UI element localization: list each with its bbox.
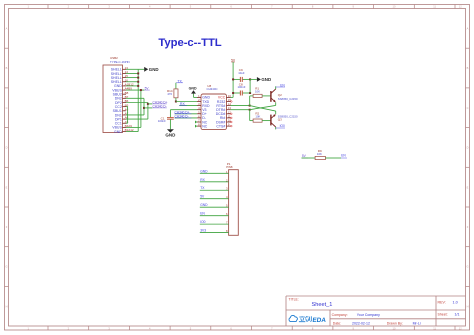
pin 14 SHELL bbox=[123, 72, 127, 74]
svg-text:CTS#: CTS# bbox=[216, 124, 225, 128]
wire GND shell bus vertical bbox=[137, 69, 139, 131]
svg-text:GND: GND bbox=[261, 77, 271, 82]
wire RTS# bbox=[231, 105, 250, 107]
wire VBUS bus vertical bbox=[140, 90, 142, 127]
pin 13 SHELL bbox=[123, 68, 127, 70]
pin 2 header wire (RX) bbox=[200, 181, 229, 183]
op-amp U8 body (CH340C) bbox=[201, 94, 227, 130]
transistor Q2 bbox=[270, 91, 272, 102]
junction bbox=[175, 101, 177, 103]
ground flag near connector bbox=[144, 67, 148, 72]
pin 13 DTR# bbox=[227, 109, 231, 111]
junction bbox=[249, 109, 251, 111]
junction bbox=[249, 105, 251, 107]
svg-text:GND: GND bbox=[200, 169, 208, 173]
svg-text:A: A bbox=[6, 26, 8, 30]
pin B1A12 GND bbox=[123, 131, 127, 133]
svg-text:Date:: Date: bbox=[333, 322, 341, 326]
wire DN chain bbox=[126, 97, 144, 99]
svg-text:D: D bbox=[467, 146, 469, 150]
svg-text:100nF: 100nF bbox=[158, 119, 166, 123]
svg-text:A: A bbox=[467, 26, 469, 30]
resistor R2 bbox=[253, 119, 262, 122]
wire R14 to TXD bbox=[175, 98, 177, 102]
svg-text:CH340C: CH340C bbox=[207, 87, 218, 91]
svg-text:470: 470 bbox=[167, 92, 172, 96]
wire D+ bbox=[175, 113, 198, 115]
junction bbox=[140, 89, 142, 91]
pin 6 D- bbox=[197, 117, 201, 119]
svg-text:G: G bbox=[5, 265, 7, 269]
pin 1 header wire (GND) bbox=[200, 172, 229, 174]
pin 3 RXD bbox=[197, 105, 201, 107]
logo glyph chuang bbox=[305, 316, 311, 322]
wire shell/gnd stub bbox=[126, 77, 138, 79]
svg-text:G: G bbox=[466, 265, 468, 269]
pin 10 DSR# bbox=[227, 121, 231, 123]
border row ticks left/right bbox=[5, 47, 9, 49]
junction bbox=[143, 107, 145, 109]
pin A6 DP1 bbox=[123, 118, 127, 120]
wire R2 to Q3 base bbox=[262, 120, 271, 122]
connector USB2 body bbox=[103, 65, 123, 133]
svg-text:E: E bbox=[467, 185, 469, 189]
wire Q3 collector bbox=[275, 127, 277, 129]
svg-text:H: H bbox=[6, 304, 8, 308]
svg-text:GND: GND bbox=[189, 86, 197, 90]
wire bottom GND stub bbox=[126, 131, 138, 133]
wire R9 to EN bbox=[325, 157, 341, 159]
junction bbox=[147, 103, 149, 105]
pin A7 DN1 bbox=[123, 114, 127, 116]
svg-text:REV:: REV: bbox=[438, 300, 446, 304]
wire R1 left lead bbox=[249, 96, 251, 106]
no-connect marks left NC pins bbox=[195, 121, 197, 124]
junction bbox=[137, 81, 139, 83]
pin 5 D+ bbox=[197, 113, 201, 115]
svg-text:GND: GND bbox=[165, 132, 176, 137]
pin 12 DCD# bbox=[227, 113, 231, 115]
wire VBUS stub bottom bbox=[126, 126, 141, 128]
wire shell/gnd stub bbox=[126, 85, 138, 87]
wire CC2 stub bbox=[126, 106, 128, 108]
svg-text:EN: EN bbox=[341, 154, 346, 158]
pin 9 CTS# bbox=[227, 125, 231, 127]
svg-text:E: E bbox=[6, 185, 8, 189]
capacitor C1 bbox=[167, 117, 174, 119]
pin 7 NC bbox=[197, 121, 201, 123]
capacitor C8 bbox=[239, 91, 241, 96]
junction bbox=[232, 92, 234, 94]
wire D- bbox=[175, 117, 198, 119]
wire CC1 stub bbox=[126, 122, 128, 124]
svg-text:Q3: Q3 bbox=[278, 118, 282, 122]
wire 5V to R9 bbox=[302, 157, 316, 159]
wire VCC bbox=[231, 96, 234, 98]
svg-text:Sheet_1: Sheet_1 bbox=[312, 302, 333, 308]
svg-text:10K: 10K bbox=[317, 152, 322, 156]
svg-text:3V3: 3V3 bbox=[200, 229, 206, 233]
svg-text:D: D bbox=[6, 146, 8, 150]
wire to GND flag bbox=[138, 68, 144, 70]
pin 7 header wire (IO0) bbox=[200, 223, 229, 225]
pin 14 RTS# bbox=[227, 105, 231, 107]
svg-text:B: B bbox=[6, 66, 8, 70]
wire Q2 emitter to DTR bbox=[275, 102, 277, 105]
pin A5 CC1 bbox=[123, 122, 127, 124]
wire R1 to Q2 base bbox=[262, 95, 271, 97]
svg-text:NC: NC bbox=[202, 124, 208, 128]
svg-text:Sheet:: Sheet: bbox=[438, 313, 448, 317]
svg-text:B: B bbox=[467, 66, 469, 70]
resistor R9 bbox=[315, 156, 325, 159]
no-connect marks right pins bbox=[231, 101, 233, 103]
wire to CH340 D+ label bbox=[148, 103, 152, 105]
pin B8 SBU2 bbox=[123, 93, 127, 95]
wire Q2 collector bbox=[275, 86, 277, 89]
junction bbox=[137, 72, 139, 74]
pin B6 DP2 bbox=[123, 102, 127, 104]
wire to CH340 D- label bbox=[144, 107, 152, 109]
title block outline bbox=[286, 295, 466, 297]
wire to right GND flag bbox=[250, 78, 257, 80]
wire TXD bbox=[176, 101, 197, 103]
pin 4 V3 bbox=[197, 109, 201, 111]
resistor R14 bbox=[174, 89, 178, 98]
wire shell/gnd stub bbox=[126, 81, 138, 83]
svg-text:EDA: EDA bbox=[312, 317, 327, 324]
pin 15 SHELL bbox=[123, 77, 127, 79]
wire DTR# bbox=[231, 109, 250, 111]
pin B4A9 VBUS bbox=[123, 126, 127, 128]
svg-text:RX: RX bbox=[200, 178, 205, 182]
svg-text:H: H bbox=[467, 304, 469, 308]
pin 2 TXD bbox=[197, 101, 201, 103]
wire Q3 emitter to RTS bbox=[275, 111, 277, 114]
pin A1B12 GND bbox=[123, 85, 127, 87]
svg-text:12: 12 bbox=[228, 110, 231, 114]
wire chip GND pin bbox=[194, 96, 198, 98]
pin 8 header wire (3V3) bbox=[200, 232, 229, 234]
junction bbox=[137, 77, 139, 79]
pin 3 header wire (TX) bbox=[200, 189, 229, 191]
junction bbox=[249, 78, 251, 80]
svg-text:IO0: IO0 bbox=[200, 220, 205, 224]
logo glyph li bbox=[299, 316, 305, 322]
pin 8 NC bbox=[197, 125, 201, 127]
wire 5V rail bbox=[232, 62, 234, 97]
svg-text:GND: GND bbox=[149, 67, 159, 72]
ground flag above chip (up arrow) bbox=[191, 90, 196, 93]
wire R2 left lead bbox=[249, 110, 251, 121]
svg-text:10: 10 bbox=[228, 119, 231, 123]
svg-text:1/1: 1/1 bbox=[455, 313, 460, 317]
pin A8 SBU1 bbox=[123, 110, 127, 112]
svg-text:15: 15 bbox=[228, 98, 231, 102]
wire shell/gnd stub bbox=[126, 72, 138, 74]
wire bottom cap rail bbox=[233, 92, 240, 94]
wire top cap rail bbox=[233, 78, 240, 80]
svg-text:Company:: Company: bbox=[332, 313, 348, 317]
wire VBUS stub top bbox=[126, 89, 144, 91]
logo EasyEDA cloud bbox=[289, 315, 297, 321]
pin 6 header wire (EN) bbox=[200, 215, 229, 217]
pin 1 GND bbox=[197, 96, 201, 98]
junction bbox=[249, 92, 251, 94]
svg-text:10K: 10K bbox=[255, 90, 260, 94]
svg-text:C: C bbox=[467, 106, 469, 110]
border column ticks top/bottom bbox=[47, 5, 49, 9]
wire DP chain bbox=[126, 102, 148, 104]
wire C1 to ground bbox=[169, 119, 171, 129]
pin 5 header wire (GND) bbox=[200, 206, 229, 208]
resistor R1 bbox=[253, 94, 262, 97]
pin B7 DN2 bbox=[123, 97, 127, 99]
svg-text:Type-c--TTL: Type-c--TTL bbox=[158, 37, 221, 49]
svg-text:2022-02-12: 2022-02-12 bbox=[352, 322, 370, 326]
wire V3 bbox=[170, 109, 197, 111]
pin 16 VCC bbox=[227, 96, 231, 98]
svg-text:EN: EN bbox=[200, 212, 205, 216]
svg-text:100nF: 100nF bbox=[238, 85, 246, 89]
connector P1 body bbox=[229, 170, 239, 236]
svg-text:TITLE:: TITLE: bbox=[289, 298, 299, 302]
svg-text:GND: GND bbox=[114, 130, 122, 134]
svg-text:1.0: 1.0 bbox=[453, 300, 458, 304]
svg-text:Mr-Li: Mr-Li bbox=[413, 322, 421, 326]
junction bbox=[232, 78, 234, 80]
svg-text:GND: GND bbox=[200, 203, 208, 207]
svg-text:SS8050_C2150: SS8050_C2150 bbox=[278, 97, 298, 101]
wire CC bus vertical bbox=[127, 107, 129, 124]
pin 4 header wire (5V) bbox=[200, 198, 229, 200]
svg-text:10uF: 10uF bbox=[238, 71, 245, 75]
transistor Q3 bbox=[270, 115, 272, 126]
pin A4B9 VBUS bbox=[123, 89, 127, 91]
svg-text:10K: 10K bbox=[255, 114, 260, 118]
junction bbox=[137, 85, 139, 87]
svg-text:IO0: IO0 bbox=[280, 124, 285, 128]
svg-text:Drawn By:: Drawn By: bbox=[387, 322, 403, 326]
ground below C1 (down arrow) bbox=[167, 129, 174, 132]
ground flag right of caps bbox=[257, 77, 261, 82]
wire TX to R14 bbox=[175, 83, 177, 89]
capacitor C9 bbox=[239, 77, 241, 82]
wire caps right vertical bbox=[249, 79, 251, 93]
svg-text:C: C bbox=[6, 106, 8, 110]
pin 11 RI# bbox=[227, 117, 231, 119]
pin 16 SHELL bbox=[123, 81, 127, 83]
svg-text:TYPE-C-16PIN: TYPE-C-16PIN bbox=[110, 60, 130, 64]
wire RXD bbox=[179, 105, 197, 107]
svg-text:Your Company: Your Company bbox=[357, 313, 380, 317]
pin B5 CC2 bbox=[123, 106, 127, 108]
pin 15 R232 bbox=[227, 101, 231, 103]
svg-text:PIN8: PIN8 bbox=[226, 165, 233, 169]
wire shell/gnd stub bbox=[126, 68, 138, 70]
